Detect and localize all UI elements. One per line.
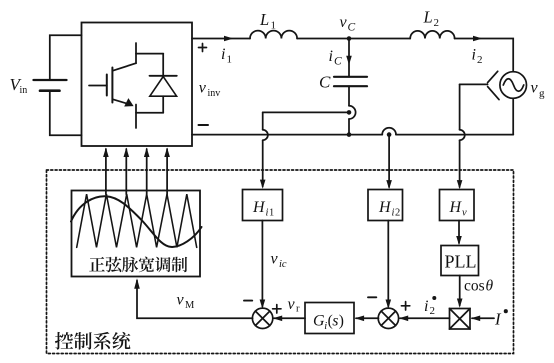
wire iC sense to Hi1: [263, 112, 349, 186]
svg-text:i: i: [424, 298, 428, 315]
wire Hi1 output to summing node: [261, 221, 263, 307]
multiplier M1: [450, 309, 471, 330]
label vM: [177, 292, 196, 312]
label I star: [494, 309, 508, 328]
svg-text:C: C: [319, 73, 331, 92]
svg-text:ic: ic: [279, 259, 287, 270]
arrow into S2 right: [399, 316, 408, 322]
arrow into PLL: [456, 236, 462, 245]
svg-text:C: C: [334, 56, 342, 68]
svg-text:v: v: [531, 80, 539, 97]
label C: [319, 73, 331, 92]
arrow into Hv: [457, 180, 463, 189]
svg-text:2: 2: [395, 208, 400, 219]
svg-text:I: I: [494, 310, 502, 329]
svg-text:H: H: [449, 199, 463, 216]
capacitor C: [334, 77, 367, 86]
wire inverter output to L1: [192, 38, 250, 40]
summer S1 (left): [252, 308, 272, 328]
arrow into multiplier top: [457, 299, 463, 308]
svg-text:1: 1: [271, 20, 277, 32]
wire multiplier to S2: [400, 317, 450, 319]
diode D1: [136, 54, 177, 113]
block Gi(s): [305, 303, 354, 334]
label vic: [271, 251, 287, 271]
svg-text:2: 2: [477, 54, 483, 66]
svg-text:in: in: [20, 85, 28, 96]
svg-text:1: 1: [269, 208, 274, 219]
label SPWM (Chinese): [89, 257, 187, 273]
svg-text:cos: cos: [464, 278, 485, 295]
arrow gate 3: [144, 148, 150, 158]
label Hi1: [252, 199, 274, 219]
label cos theta: [464, 278, 494, 295]
wire bottom rail: [192, 134, 513, 136]
wire vg sense to Hv: [460, 84, 465, 187]
label minus at S2: [368, 296, 376, 298]
svg-text:): ): [339, 312, 344, 329]
wire capacitor to bottom rail with sensor loop: [349, 86, 356, 134]
wire gate drive 1: [105, 149, 107, 194]
label vr: [288, 296, 301, 315]
svg-text:i: i: [329, 48, 333, 65]
arrow i1: [224, 36, 234, 42]
svg-text:inv: inv: [208, 88, 221, 99]
arrow gate 2: [124, 148, 130, 158]
svg-text:s: s: [332, 312, 338, 329]
label plus at S1: [273, 305, 281, 313]
wire Hi2 output to S2: [387, 221, 389, 307]
wire L1 to L2: [297, 38, 410, 40]
arrow into Hi2: [386, 180, 392, 189]
svg-text:i: i: [221, 46, 225, 63]
label minus at S1: [244, 300, 252, 302]
arrow gate 1: [103, 148, 109, 158]
arrow into Hi1: [260, 180, 266, 189]
battery B1 (Vin DC source): [34, 80, 67, 91]
label Hi2: [378, 199, 400, 219]
arrow into S1: [273, 316, 282, 322]
wire node vC down to capacitor: [348, 39, 350, 77]
arrow into left summer: [260, 300, 266, 309]
wire Hv to PLL: [458, 221, 460, 244]
wire L2 to vg: [455, 39, 514, 72]
label L1: [259, 10, 276, 32]
wire battery negative to inverter: [50, 91, 82, 135]
label plus at S2: [401, 302, 409, 310]
inverter U1 box: [82, 23, 193, 147]
label i2: [472, 47, 483, 67]
svg-text:v: v: [177, 292, 185, 309]
wire gate drive 4: [166, 149, 168, 194]
arrow i2: [473, 36, 483, 42]
label v_inv with polarity: [199, 80, 220, 100]
control system dashed border: [47, 170, 514, 354]
SPWM block box: [72, 191, 201, 277]
label vg: [531, 80, 546, 100]
node capacitor to rail junction dot: [347, 132, 352, 137]
vg sense probe hook: [460, 71, 499, 99]
svg-text:L: L: [259, 10, 269, 29]
svg-text:H: H: [252, 199, 266, 216]
node iC sense tap dot: [347, 110, 352, 115]
svg-text:r: r: [296, 304, 300, 315]
AC source vg: [500, 72, 527, 99]
svg-text:G: G: [313, 312, 325, 329]
label i2 star: [424, 296, 436, 317]
svg-text:C: C: [348, 22, 356, 34]
minus sign of v_inv: [199, 124, 209, 126]
svg-text:2: 2: [434, 17, 440, 29]
wire vg to bottom rail: [512, 98, 514, 134]
block Hv: [440, 190, 475, 221]
arrow into SPWM bottom: [134, 278, 140, 289]
block Hi2: [368, 190, 403, 221]
wire i2 sense to Hi2: [388, 135, 390, 187]
block Hi1: [243, 190, 283, 221]
SPWM sine modulation wave: [71, 196, 202, 247]
label iC: [329, 48, 343, 68]
label Vin: [10, 75, 28, 96]
svg-text:2: 2: [430, 305, 436, 317]
label PLL: [445, 252, 477, 272]
wire I star to multiplier: [472, 317, 494, 319]
block PLL: [441, 246, 479, 276]
svg-text:v: v: [462, 208, 467, 219]
SPWM triangle carrier wave: [77, 194, 197, 247]
svg-text:v: v: [271, 251, 279, 268]
arrow gate 4: [164, 148, 170, 158]
svg-text:PLL: PLL: [445, 252, 477, 272]
wire battery positive to inverter: [50, 35, 82, 80]
svg-text:v: v: [288, 296, 296, 313]
wire gate drive 2: [125, 149, 127, 194]
node vC junction dot: [347, 36, 352, 41]
label Gi(s): [313, 312, 344, 332]
arrow into S2 top: [386, 300, 392, 309]
svg-text:1: 1: [227, 54, 233, 66]
label vC: [340, 14, 356, 34]
svg-text:i: i: [472, 47, 476, 64]
wire gate drive 3: [146, 149, 148, 194]
svg-text:M: M: [185, 300, 195, 311]
transistor Q1 IGBT: [89, 43, 136, 128]
svg-text:v: v: [340, 14, 348, 31]
svg-text:L: L: [423, 8, 433, 27]
svg-text:H: H: [378, 199, 392, 216]
wire S1 output to SPWM: [137, 281, 253, 319]
svg-text:v: v: [199, 80, 207, 97]
plus sign of v_inv: [199, 44, 207, 52]
arrow iC: [346, 56, 352, 65]
sensor loop over rail for i2: [382, 128, 396, 135]
wire right summer to Gi: [356, 317, 379, 319]
label control system (Chinese): [55, 332, 130, 350]
inductor L2: [410, 31, 454, 39]
svg-text:g: g: [539, 88, 545, 100]
label Hv: [449, 199, 468, 219]
label L2: [423, 8, 440, 30]
summer S2 (right): [378, 308, 398, 328]
inductor L1: [250, 31, 297, 39]
arrow into Gi: [355, 316, 364, 322]
node i2 sense tap dot: [387, 132, 392, 137]
wire Gi to left summer: [274, 317, 305, 319]
arrow into multiplier right: [471, 316, 480, 322]
wire PLL to multiplier: [459, 276, 461, 306]
svg-text:θ: θ: [486, 278, 494, 295]
label i1: [221, 46, 232, 66]
